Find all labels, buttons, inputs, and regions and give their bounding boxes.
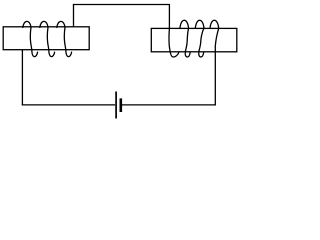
battery BT1 long plate (positive) [115, 92, 117, 119]
iron core (left bar) [3, 27, 89, 50]
coil L1 (left winding, 3 turns) [23, 21, 72, 56]
wire (top horizontal) [73, 4, 170, 6]
wire (right coil bottom lead, vertical) [214, 50, 216, 105]
wire (bottom horizontal, left of battery) [22, 104, 115, 106]
wire (bottom horizontal, right of battery) [122, 104, 216, 106]
wire (left coil top lead, vertical) [73, 5, 75, 27]
iron core (right bar) [151, 28, 237, 51]
coil L2 (right winding, 3 turns, entry strand from top lead) [169, 20, 219, 57]
wire (left coil bottom lead, vertical) [21, 50, 23, 105]
wire (right coil top lead, vertical) [168, 5, 170, 29]
battery BT1 short plate (negative) [120, 98, 123, 112]
